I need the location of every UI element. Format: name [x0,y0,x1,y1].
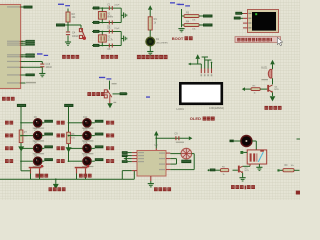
svg-text:LCD1: LCD1 [177,107,185,111]
svg-text:22pF: 22pF [114,28,120,30]
svg-text:22pF: 22pF [114,5,120,7]
svg-text:100nF: 100nF [72,36,79,38]
svg-text:8MHz: 8MHz [107,16,114,18]
svg-text:D14: D14 [83,143,88,145]
svg-text:R2: R2 [72,12,76,16]
svg-text:BUZ1: BUZ1 [261,68,268,70]
svg-text:BOOT: BOOT [172,36,184,41]
svg-text:C15: C15 [46,63,51,66]
svg-text:NPN: NPN [274,89,279,91]
svg-text:D12: D12 [83,117,88,119]
svg-text:NPN: NPN [245,170,250,172]
svg-text:OLED: OLED [190,116,201,121]
svg-text:100nF: 100nF [46,67,53,69]
svg-text:LED-GREEN: LED-GREEN [156,43,168,45]
svg-text:D15: D15 [83,155,88,157]
svg-text:32.7k: 32.7k [107,40,113,42]
svg-text:0.96(128x64): 0.96(128x64) [209,107,224,110]
svg-text:D13: D13 [83,130,88,132]
